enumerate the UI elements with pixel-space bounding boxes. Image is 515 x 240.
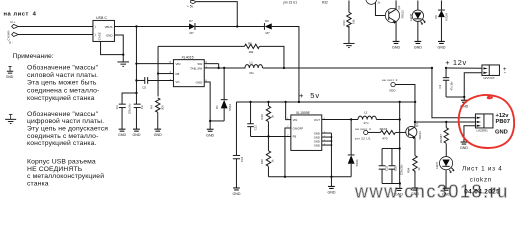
wire D- to USB [18, 33, 93, 35]
junction 12v branch [431, 67, 433, 69]
wire Q1 emitter [414, 137, 416, 155]
ground Q2 [392, 41, 400, 49]
wire Q2 emitter to gnd [395, 22, 397, 42]
connector pin D- arrow [9, 32, 18, 44]
wire L2 to filter [376, 118, 399, 120]
svg-text:НЕ СОЕДИНЯТЬ: НЕ СОЕДИНЯТЬ [27, 166, 83, 173]
svg-text:D +: D + [10, 20, 15, 24]
svg-text:R19: R19 [260, 114, 264, 120]
wire filter drop [399, 102, 401, 149]
junction SW node [218, 67, 220, 69]
resistor R19 [260, 102, 274, 137]
svg-text:220u 16v: 220u 16v [400, 164, 403, 175]
svg-text:+ 12v: + 12v [445, 58, 467, 67]
wire USB GND to chassis [114, 35, 123, 62]
svg-text:-: - [504, 70, 506, 77]
led LED8 [409, 0, 425, 41]
capacitor C23 input [233, 102, 244, 188]
IC U2 XL1509E [287, 111, 326, 150]
svg-text:на лист 2: на лист 2 [382, 78, 398, 82]
note text block 3 [27, 158, 104, 187]
svg-text:на лист 4: на лист 4 [355, 127, 371, 131]
svg-text:C5: C5 [142, 85, 146, 89]
wire SW pins join [204, 64, 218, 68]
wire ON/OFF to gnd [285, 128, 291, 177]
ground R4 [154, 129, 162, 137]
wire Q1 collector [414, 102, 416, 127]
junction R3 to 12v node [283, 67, 285, 69]
svg-text:на лист 4: на лист 4 [3, 12, 36, 18]
junction FB node [157, 72, 159, 74]
note text block 2 [27, 110, 108, 147]
svg-text:цифровой части платы.: цифровой части платы. [27, 117, 104, 125]
svg-text:C22: C22 [385, 165, 389, 171]
ground U1 [206, 129, 214, 137]
ground 12v filter [460, 100, 468, 108]
resistor R103 base [380, 127, 406, 140]
junction rail-C5 [135, 79, 137, 81]
svg-text:Обозначение "массы": Обозначение "массы" [27, 63, 99, 71]
connector VDD circle [382, 78, 415, 102]
svg-text:Лист 1 из 4: Лист 1 из 4 [462, 166, 503, 173]
svg-text:VIN: VIN [293, 118, 298, 122]
wire 5v rail [236, 101, 415, 103]
transistor Q2 S9013 [385, 5, 404, 23]
svg-text:ciokzn: ciokzn [470, 176, 492, 183]
svg-text:конструкцией станка: конструкцией станка [27, 94, 95, 102]
svg-text:C20: C20 [394, 165, 398, 171]
inductor L1 [245, 61, 263, 76]
svg-text:R32: R32 [322, 1, 328, 5]
svg-text:SS34: SS34 [355, 159, 359, 166]
svg-text:Эта цепь может быть: Эта цепь может быть [27, 79, 97, 87]
svg-text:Эту цепь не допускается: Эту цепь не допускается [27, 126, 108, 133]
svg-text:LED8: LED8 [409, 14, 413, 21]
svg-text:47u 16v: 47u 16v [450, 81, 453, 91]
svg-text:соединена с металло-: соединена с металло- [27, 87, 99, 94]
svg-text:M7: M7 [265, 31, 269, 35]
ground C3 [118, 129, 126, 137]
svg-text:Примечание:: Примечание: [12, 53, 53, 60]
wire 12v branch down [432, 68, 476, 118]
svg-text:C6: C6 [140, 105, 144, 109]
wire Q2 collector up [395, 0, 397, 9]
wire D+ to USB [18, 25, 93, 27]
svg-text:〉: 〉 [94, 24, 97, 29]
svg-text:FB: FB [175, 72, 179, 76]
wire U1 GND down [204, 82, 210, 129]
capacitor C6 on rail [134, 101, 144, 129]
svg-text:Q3: Q3 [397, 5, 401, 9]
svg-text:GND: GND [6, 75, 14, 79]
capacitor C4 [438, 68, 465, 97]
svg-text:силовой части платы.: силовой части платы. [27, 71, 98, 79]
ground filter [395, 188, 403, 196]
ground D5 [437, 41, 445, 49]
svg-text:соединять с металло-: соединять с металло- [27, 133, 98, 140]
filter block C22 C20 [379, 147, 404, 188]
note text block 1 [27, 63, 99, 102]
wire U2 gnd bus [322, 133, 332, 177]
svg-text:R3: R3 [248, 41, 252, 45]
svg-text:D1: D1 [215, 105, 219, 109]
note icon power ground [6, 66, 14, 79]
wire D7 to D6 [195, 25, 265, 27]
svg-text:S9013: S9013 [418, 131, 422, 140]
connector pin22 U1 circle [355, 127, 381, 140]
svg-text:47u: 47u [363, 121, 368, 125]
svg-text:VBUS: VBUS [105, 25, 113, 29]
svg-text:OUT: OUT [314, 118, 320, 122]
wire VIN [136, 63, 173, 65]
wire bottom gnd run [268, 176, 351, 178]
svg-text:USB C: USB C [96, 16, 107, 20]
svg-text:станка: станка [27, 180, 49, 187]
chassis ground USB [117, 62, 129, 66]
svg-text:GND: GND [314, 143, 320, 147]
svg-text:+ 5v: + 5v [299, 91, 320, 100]
svg-text:GND: GND [106, 33, 112, 37]
resistor R94 emitter [407, 156, 421, 189]
resistor R4 [149, 74, 164, 130]
svg-text:RS2M: RS2M [445, 13, 449, 20]
svg-text:+12v: +12v [495, 113, 509, 119]
svg-text:L1: L1 [249, 61, 253, 65]
diode D5 [434, 0, 449, 41]
diode D7 [189, 19, 195, 35]
resistor R33 [342, 0, 356, 47]
svg-text:Обозначение "массы": Обозначение "массы" [27, 110, 99, 118]
wire lazer gnd pin [464, 126, 476, 142]
svg-text:XL1509E: XL1509E [296, 111, 311, 115]
svg-text:GND: GND [495, 129, 508, 135]
connector pin D+ arrow [8, 20, 18, 33]
svg-text:pin 23 U1: pin 23 U1 [283, 1, 297, 5]
wire VIN branch U2 [286, 102, 291, 120]
ground LED7 [442, 188, 450, 196]
resistor R87 led [439, 122, 448, 157]
svg-text:RES87: RES87 [439, 134, 443, 143]
svg-text:конструкцией станка.: конструкцией станка. [27, 139, 96, 147]
junction U1 gnd [209, 120, 211, 122]
junction C4 tap [445, 67, 447, 69]
connector circle top (cut) [366, 0, 386, 15]
svg-text:C3: C3 [115, 105, 119, 109]
svg-text:+ 5v: + 5v [187, 4, 194, 8]
svg-text:Корпус USB разъема: Корпус USB разъема [27, 158, 96, 165]
svg-text:R94: R94 [407, 167, 411, 173]
wire gnd link to D1 [210, 120, 224, 122]
wire D6 output down to 5v rail [272, 26, 299, 102]
node VBUS junction at input rail [135, 25, 137, 27]
svg-text:SS34: SS34 [228, 104, 232, 111]
svg-text:CH340: CH340 [6, 31, 10, 41]
diode D6 [264, 19, 271, 35]
wire VBUS out [114, 25, 189, 27]
svg-text:S9013: S9013 [400, 10, 404, 19]
connector LAZER1 [475, 113, 510, 136]
annotation red circle [459, 95, 514, 148]
connector 12VOUT [482, 65, 507, 80]
svg-text:FB: FB [293, 135, 297, 139]
svg-text:51k: 51k [351, 19, 355, 24]
wire FB net U2 [251, 135, 291, 137]
svg-text:VIN: VIN [175, 62, 180, 66]
wire USB CASE down [101, 41, 124, 54]
ground C23 [232, 188, 240, 196]
ground LED8 [414, 41, 422, 49]
svg-text:D5: D5 [434, 15, 438, 19]
wire input rail vertical [135, 26, 137, 101]
svg-text:pin 22 U1: pin 22 U1 [355, 136, 371, 140]
node +5v tap [236, 25, 238, 27]
svg-text:GND: GND [196, 80, 204, 84]
svg-text:R20: R20 [260, 159, 264, 165]
wire +5v tap up [196, 2, 237, 27]
svg-text:D6: D6 [265, 19, 269, 23]
led LED7 [435, 157, 454, 189]
capacitor C3 from rail [115, 92, 138, 129]
capacitor C21 [247, 102, 258, 137]
wire FB [158, 73, 173, 75]
wire 12v to connector [446, 67, 482, 69]
svg-text:SW: SW [197, 62, 202, 66]
svg-text:470: 470 [382, 136, 387, 140]
junction case/gnd [122, 54, 124, 56]
svg-text:M7: M7 [189, 31, 193, 35]
wire 12vout minus [464, 73, 482, 101]
svg-text:04.04.2025: 04.04.2025 [464, 189, 500, 196]
junction D1 tap [223, 67, 225, 69]
svg-text:C21: C21 [254, 125, 258, 131]
svg-text:330u 50v: 330u 50v [128, 103, 131, 114]
svg-text:LAZER1: LAZER1 [476, 129, 488, 133]
USB C connector box [93, 16, 115, 41]
wire SW to L1 [219, 67, 246, 69]
svg-text:TAB_SW: TAB_SW [190, 66, 202, 70]
svg-text:LED7: LED7 [435, 162, 439, 169]
ground lazer [460, 142, 468, 150]
junction rail-VIN [135, 63, 137, 65]
svg-text:с металлоконструкцией: с металлоконструкцией [27, 172, 104, 180]
svg-text:C23: C23 [240, 156, 244, 162]
capacitor C5 [136, 77, 173, 89]
wire L1 to 12v run [263, 67, 432, 69]
resistor R20 [260, 136, 274, 176]
resistor R3 feedback [158, 41, 284, 73]
wire PB07 net [415, 121, 476, 123]
svg-text:PB07: PB07 [495, 119, 510, 125]
ground bottom run [330, 177, 332, 187]
svg-text:C4: C4 [438, 84, 442, 88]
svg-text:CASE: CASE [97, 32, 101, 40]
svg-text:18k: 18k [248, 50, 253, 54]
svg-text:ON/OFF: ON/OFF [293, 126, 304, 130]
transistor Q1 S9013 [406, 123, 422, 140]
svg-text:VDD: VDD [389, 89, 396, 93]
svg-text:R103: R103 [380, 127, 388, 131]
note icon digital ground [5, 114, 16, 124]
diode D2 SS34 catch [348, 119, 359, 176]
svg-text:R33: R33 [342, 20, 346, 26]
junction rail nodes [298, 101, 300, 103]
svg-text:L2: L2 [364, 111, 368, 115]
IC U1 XL4015 [169, 56, 207, 87]
ground R94 [411, 188, 419, 196]
svg-text:R4: R4 [149, 105, 153, 109]
connector +5v arrow (cut) [187, 0, 196, 8]
svg-text:XL4015: XL4015 [181, 56, 193, 60]
svg-text:300: 300 [160, 105, 164, 110]
svg-text:D7: D7 [189, 19, 193, 23]
ground C6 [132, 129, 140, 137]
inductor L2 [358, 111, 376, 125]
wire U2 OUT [322, 118, 358, 120]
diode D1 SS34 catch [215, 68, 232, 121]
svg-text:12VOUT: 12VOUT [483, 76, 495, 80]
svg-text:47u: 47u [249, 71, 254, 75]
